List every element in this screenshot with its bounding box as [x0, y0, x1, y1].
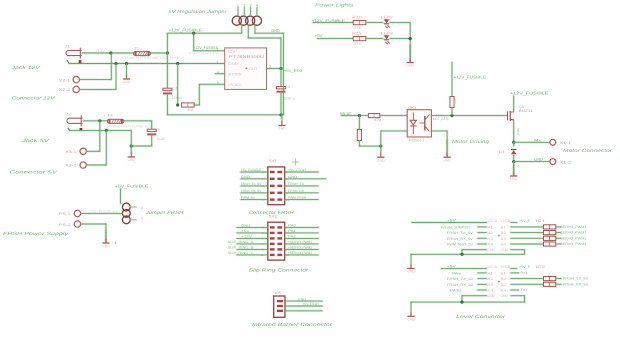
svg-text:A2: A2 [488, 231, 494, 235]
svg-text:B3: B3 [501, 283, 507, 287]
svg-text:PWRSUPPLY: PWRSUPPLY [189, 51, 219, 55]
svg-text:Level Converter: Level Converter [456, 314, 506, 319]
svg-text:1: 1 [217, 47, 219, 51]
svg-text:10k: 10k [453, 99, 457, 104]
svg-text:GND: GND [407, 318, 415, 322]
svg-text:GND: GND [377, 158, 385, 162]
svg-text:Connector 12V: Connector 12V [12, 96, 56, 101]
svg-text:GND: GND [271, 28, 280, 33]
svg-text:F1: F1 [135, 46, 140, 50]
svg-text:PWM_FRSH: PWM_FRSH [288, 196, 307, 200]
svg-text:11: 11 [261, 253, 264, 257]
svg-text:X2-2: X2-2 [59, 88, 71, 92]
svg-text:FRSH_TX_33: FRSH_TX_33 [447, 277, 473, 281]
svg-text:X3-2: X3-2 [65, 164, 77, 168]
svg-text:5: 5 [217, 81, 219, 85]
svg-text:FRSH Power Supply: FRSH Power Supply [3, 231, 69, 236]
svg-text:F2: F2 [108, 113, 113, 117]
svg-text:SERVO_PWM3: SERVO_PWM3 [560, 236, 586, 240]
svg-text:+12V_FUSIBLE: +12V_FUSIBLE [510, 91, 549, 96]
svg-text:A2: A2 [488, 277, 494, 281]
svg-text:Jumper FRSH: Jumper FRSH [144, 210, 184, 215]
svg-text:+12V: +12V [241, 235, 253, 239]
svg-text:A4: A4 [488, 289, 494, 293]
svg-text:X1-2: X1-2 [560, 161, 572, 165]
svg-text:OK1: OK1 [408, 106, 416, 110]
svg-text:FRSH_TX: FRSH_TX [288, 182, 305, 186]
svg-text:GND: GND [510, 177, 518, 181]
svg-text:FRSH_JUMPER: FRSH_JUMPER [441, 225, 471, 229]
svg-text:BUZ11: BUZ11 [519, 109, 533, 113]
svg-text:OUT: OUT [249, 67, 259, 71]
svg-text:+FRSH_RX_5V: +FRSH_RX_5V [560, 282, 589, 286]
svg-text:PWM_5V: PWM_5V [241, 196, 256, 200]
svg-text:+SERVO_PWM2: +SERVO_PWM2 [288, 246, 312, 250]
svg-text:3: 3 [250, 3, 252, 7]
svg-text:SV1: SV1 [269, 159, 277, 163]
svg-text:5V Regulation Jumper: 5V Regulation Jumper [168, 9, 227, 14]
svg-text:+5V_FUSIBLE2: +5V_FUSIBLE2 [89, 210, 117, 214]
svg-text:4: 4 [256, 3, 258, 7]
svg-text:SERVO_PWM4: SERVO_PWM4 [560, 242, 586, 246]
svg-text:Power Lights: Power Lights [315, 3, 354, 8]
svg-text:SV2: SV2 [269, 214, 277, 218]
svg-text:FRSH_RX_5V: FRSH_RX_5V [241, 189, 262, 193]
svg-text:GND: GND [228, 62, 238, 66]
svg-text:SLIP_RING_A: SLIP_RING_A [228, 240, 255, 244]
svg-text:Motor Driving: Motor Driving [452, 139, 490, 144]
svg-text:FRSH_RX_5V: FRSH_RX_5V [447, 237, 474, 241]
svg-text:FRSH_TX_5V: FRSH_TX_5V [447, 231, 474, 235]
svg-text:SERVO_PWM2: SERVO_PWM2 [560, 231, 586, 235]
svg-text:GND: GND [298, 297, 307, 301]
svg-text:PA2: PA2 [288, 235, 296, 239]
svg-text:100 u: 100 u [284, 97, 295, 101]
svg-text:GND: GND [278, 127, 286, 131]
svg-text:FRSH_TX_5V: FRSH_TX_5V [241, 182, 262, 186]
svg-text:B4: B4 [501, 289, 507, 293]
svg-text:R10: R10 [352, 16, 362, 20]
svg-text:GND: GND [241, 224, 251, 228]
svg-text:1: 1 [237, 3, 239, 7]
svg-text:M+: M+ [534, 138, 541, 142]
svg-text:B1: B1 [501, 271, 507, 275]
svg-text:X2-1: X2-1 [59, 78, 71, 82]
svg-text:A4: A4 [488, 243, 494, 247]
svg-text:+SERVO_PWM3: +SERVO_PWM3 [288, 251, 312, 255]
svg-text:B2: B2 [501, 277, 507, 281]
svg-text:GND: GND [407, 270, 415, 274]
svg-text:PS2501-1: PS2501-1 [409, 138, 424, 142]
svg-text:GND: GND [501, 248, 509, 252]
svg-text:J1: J1 [65, 45, 70, 49]
svg-text:D1: D1 [499, 150, 505, 154]
svg-text:SLIP_RING_B: SLIP_RING_B [228, 246, 255, 250]
svg-text:GND: GND [128, 158, 136, 162]
svg-text:270: 270 [354, 25, 362, 29]
svg-text:+5V: +5V [315, 33, 323, 38]
svg-text:GND: GND [534, 158, 543, 162]
svg-text:FRSH_RX: FRSH_RX [288, 189, 305, 193]
svg-text:SHDWN: SHDWN [228, 73, 242, 77]
svg-text:PA0: PA0 [288, 224, 296, 228]
svg-text:A3: A3 [488, 283, 494, 287]
svg-text:POWERLITTLEFUSE PWR_FUSE: POWERLITTLEFUSE PWR_FUSE [125, 56, 179, 60]
svg-text:+5V: +5V [447, 219, 457, 223]
svg-text:1u0: 1u0 [157, 137, 165, 141]
svg-text:VCCB: VCCB [501, 219, 511, 223]
svg-text:PT78NR100U: PT78NR100U [229, 54, 264, 59]
svg-text:B2: B2 [501, 231, 507, 235]
svg-text:+FRSH_TX_5V: +FRSH_TX_5V [560, 277, 589, 281]
svg-text:RX1: RX1 [521, 271, 528, 275]
svg-text:PA1: PA1 [288, 229, 296, 233]
svg-text:VCCA: VCCA [488, 265, 498, 269]
svg-text:GND: GND [488, 248, 496, 252]
svg-text:+12V_FUSIBLE: +12V_FUSIBLE [454, 75, 487, 80]
svg-text:2: 2 [217, 60, 219, 64]
svg-text:B4: B4 [501, 243, 507, 247]
svg-text:PA9: PA9 [452, 271, 461, 275]
svg-text:+5V_FUSIBLE: +5V_FUSIBLE [241, 168, 262, 172]
svg-text:SLIP_RING_C: SLIP_RING_C [228, 251, 255, 255]
svg-text:GND: GND [102, 244, 110, 248]
svg-text:A1: A1 [488, 271, 494, 275]
svg-text:R11: R11 [352, 31, 362, 35]
svg-text:LED2: LED2 [381, 16, 393, 20]
svg-text:GND: GND [241, 175, 251, 179]
svg-text:LED3: LED3 [381, 31, 393, 35]
svg-text:GND: GND [443, 158, 451, 162]
svg-text:SERVO_PWM1: SERVO_PWM1 [560, 225, 586, 229]
svg-text:Motor Connector: Motor Connector [563, 148, 613, 153]
svg-text:X1-1: X1-1 [560, 141, 572, 145]
svg-text:2: 2 [243, 3, 245, 7]
svg-text:MOT: MOT [516, 129, 520, 136]
svg-text:FRSH_RX_33: FRSH_RX_33 [447, 283, 473, 287]
svg-text:IC2: IC2 [536, 265, 545, 269]
svg-text:3: 3 [115, 241, 117, 245]
svg-text:270: 270 [354, 41, 362, 45]
svg-text:A1: A1 [488, 225, 494, 229]
svg-text:+5V_FRSH: +5V_FRSH [303, 302, 320, 306]
svg-text:GND: GND [406, 64, 414, 68]
svg-text:J2: J2 [66, 113, 71, 117]
svg-text:+5V: +5V [241, 229, 251, 233]
svg-text:PA10: PA10 [450, 289, 461, 293]
svg-text:GND: GND [488, 294, 496, 298]
svg-text:+5V_FRSH: +5V_FRSH [288, 168, 307, 172]
svg-text:10: 10 [286, 198, 290, 202]
svg-text:470: 470 [374, 118, 381, 122]
svg-text:Jack 5V: Jack 5V [20, 138, 50, 143]
svg-text:A3: A3 [488, 237, 494, 241]
svg-text:+SERVO_PWM1: +SERVO_PWM1 [288, 240, 312, 244]
svg-text:PWM_MOT_5V: PWM_MOT_5V [447, 243, 474, 247]
svg-text:Infrared Barrier Connector: Infrared Barrier Connector [252, 322, 333, 327]
svg-text:PS-2: PS-2 [59, 223, 71, 227]
svg-text:VS_ADJ: VS_ADJ [228, 83, 242, 87]
svg-text:Jack 12V: Jack 12V [10, 65, 41, 70]
svg-text:VCCB: VCCB [501, 265, 511, 269]
svg-text:C3: C3 [285, 85, 291, 89]
svg-text:PS-1: PS-1 [59, 212, 71, 216]
svg-text:+: + [158, 128, 160, 132]
svg-text:B3: B3 [501, 237, 507, 241]
svg-text:+5V: +5V [447, 265, 457, 269]
svg-text:12: 12 [286, 253, 290, 257]
svg-text:+5V_F: +5V_F [519, 219, 530, 223]
svg-text:+12V_FUSIBLE: +12V_FUSIBLE [193, 46, 218, 50]
svg-text:POWERLITTLEFUSE PWR_FUSE: POWERLITTLEFUSE PWR_FUSE [108, 124, 153, 128]
svg-text:+12V_FUSIBLE: +12V_FUSIBLE [169, 27, 203, 32]
svg-text:Connector 5V: Connector 5V [10, 170, 59, 175]
svg-text:Slip Ring Connector: Slip Ring Connector [249, 268, 309, 273]
svg-text:GND: GND [288, 175, 298, 179]
svg-text:VCCA: VCCA [488, 219, 498, 223]
svg-text:MOT_GATE: MOT_GATE [433, 117, 450, 121]
svg-text:B1: B1 [501, 225, 507, 229]
svg-text:IC1: IC1 [536, 219, 545, 223]
svg-text:GND: GND [123, 80, 131, 84]
svg-text:X3-1: X3-1 [65, 150, 77, 154]
svg-text:+5V_REG: +5V_REG [284, 68, 303, 73]
svg-text:+5V_F: +5V_F [519, 265, 530, 269]
svg-text:TX1: TX1 [521, 288, 528, 292]
svg-text:X4: X4 [275, 291, 282, 295]
svg-text:GND: GND [501, 294, 509, 298]
svg-text:R2: R2 [188, 108, 194, 112]
